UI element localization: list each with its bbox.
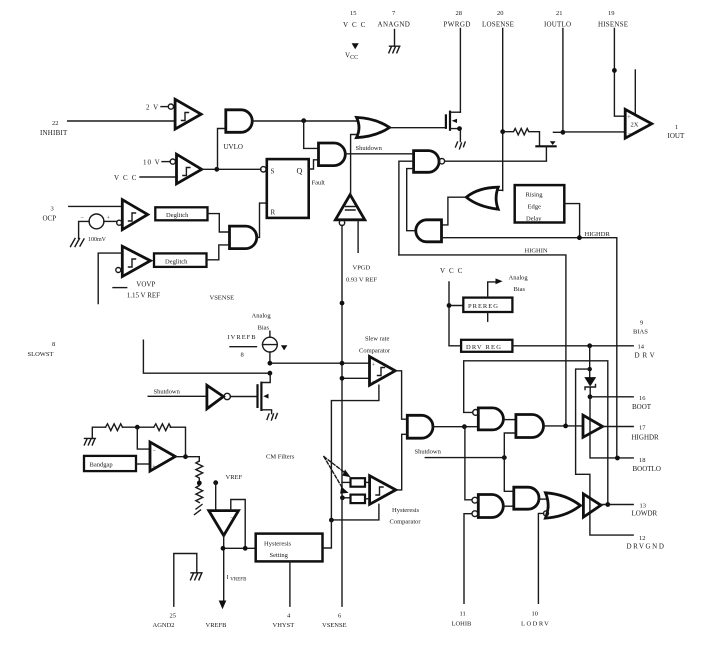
pin 20 LOSENSE label	[482, 10, 514, 29]
svg-text:14: 14	[638, 344, 645, 351]
svg-text:19: 19	[608, 10, 615, 17]
node UVLO junction	[214, 167, 219, 172]
svg-text:1.15 V REF: 1.15 V REF	[127, 292, 160, 300]
wire VCC to comparator	[140, 176, 177, 178]
wire driver1 output to pin 17	[603, 426, 634, 428]
pin 10 LODRV label	[521, 611, 550, 628]
wire VOVP top input	[98, 253, 122, 303]
transistor Q1 (PWRGD MOSFET)	[446, 111, 462, 142]
resistor R4 (divider top)	[196, 461, 203, 481]
svg-text:+: +	[152, 465, 156, 471]
svg-text:15: 15	[350, 10, 357, 17]
pin 1 IOUT label	[668, 124, 685, 140]
svg-text:Edge: Edge	[528, 204, 541, 211]
node buffer output junction	[221, 546, 226, 551]
wire junction up to UVLO AND input	[218, 129, 226, 170]
wire feedback from LOWDR to NAND bubble	[464, 361, 608, 505]
wire VREF to buffer + input	[215, 483, 217, 511]
op-amp U11 (bandgap amp)	[150, 442, 175, 471]
wire DRVGND net	[576, 369, 634, 535]
AND gate (latch R input)	[230, 226, 257, 249]
VOVP label with bar	[113, 281, 155, 289]
wire PWRGD to MOSFET drain	[459, 29, 461, 113]
comparator U10 (hysteresis)	[370, 476, 396, 505]
svg-text:LOWDR: LOWDR	[632, 510, 658, 518]
wire VPGD output up to OR input	[351, 135, 358, 195]
op-amp U7 (2X current amp)	[625, 109, 652, 138]
svg-text:9: 9	[640, 320, 643, 327]
node BOOTLO junction	[615, 456, 620, 461]
wire AGND2 to ground	[174, 554, 197, 607]
svg-text:HIGHDR: HIGHDR	[632, 434, 660, 442]
node driver1 input junction	[563, 424, 568, 429]
pin 6 VSENSE label	[322, 613, 347, 630]
wire NAND input2 from HIGHIN	[399, 161, 414, 255]
svg-text:IVREFB: IVREFB	[228, 334, 257, 341]
node VSENSE upper junction	[340, 301, 345, 306]
Hysteresis Setting block	[256, 534, 323, 562]
NAND gate (high side logic)	[473, 408, 504, 430]
svg-text:INHIBIT: INHIBIT	[40, 129, 68, 137]
PREREG block	[463, 298, 512, 312]
wire LOSENSE vertical	[502, 29, 504, 191]
AND gate (low drive)	[514, 487, 539, 509]
svg-text:VOVP: VOVP	[136, 281, 155, 289]
CM filter box 1	[342, 478, 370, 487]
divider continuation marks	[195, 505, 203, 515]
svg-text:1: 1	[675, 124, 678, 131]
svg-text:UVLO: UVLO	[224, 143, 243, 151]
svg-text:Deglitch: Deglitch	[166, 212, 189, 219]
comparator U1 (INHIBIT 2V)	[168, 99, 201, 129]
svg-text:28: 28	[456, 10, 463, 17]
svg-text:Rising: Rising	[526, 192, 544, 199]
wire HIGHDR net	[442, 238, 617, 459]
svg-text:SLOWST: SLOWST	[28, 351, 54, 358]
pin 4 VHYST label	[273, 613, 295, 630]
wire OR output to PWRGD MOSFET gate	[390, 127, 446, 129]
svg-text:Analog: Analog	[509, 275, 529, 282]
wire junction down to shutdown AND	[304, 121, 319, 148]
wire PREREG to Analog Bias arrow	[488, 282, 496, 298]
node shutdown branch junction	[462, 424, 467, 429]
svg-text:8: 8	[241, 352, 244, 359]
svg-text:+: +	[627, 115, 631, 121]
svg-text:Deglitch: Deglitch	[165, 259, 188, 266]
svg-text:Slew rate: Slew rate	[365, 336, 389, 343]
node hysteresis setting junction	[329, 518, 334, 523]
svg-text:DRV REG: DRV REG	[466, 344, 502, 351]
pin 8 SLOWST label	[28, 341, 56, 358]
svg-text:22: 22	[52, 120, 59, 127]
node shutdown low junction	[502, 455, 507, 460]
comparator U2 (UVLO 10V)	[170, 154, 202, 184]
wire resistor to output	[170, 427, 185, 457]
svg-text:18: 18	[639, 457, 646, 464]
node HIGHDR junction	[577, 235, 582, 240]
comparator U6 (VPGD, pointing up)	[335, 195, 364, 226]
svg-text:VPGD: VPGD	[353, 265, 371, 272]
svg-text:25: 25	[170, 613, 177, 620]
svg-text:11: 11	[460, 611, 466, 618]
Hysteresis Comparator labels	[390, 507, 422, 526]
svg-text:17: 17	[639, 425, 646, 432]
CM filter callout arrows	[324, 457, 351, 494]
ground (100mV source)	[71, 239, 85, 247]
transistor Q2 (current source)	[535, 132, 563, 160]
svg-text:BIAS: BIAS	[633, 329, 648, 336]
svg-text:VCC: VCC	[114, 174, 140, 182]
svg-text:Shutdown: Shutdown	[415, 449, 442, 456]
svg-text:100mV: 100mV	[88, 237, 107, 243]
svg-text:Delay: Delay	[526, 216, 542, 223]
svg-text:Analog: Analog	[252, 313, 272, 320]
svg-text:BOOTLO: BOOTLO	[633, 465, 661, 473]
wire slew bottom terminal	[331, 385, 379, 520]
wire Deglitch2 output to R AND	[207, 245, 230, 260]
svg-text:Fault: Fault	[312, 180, 326, 187]
svg-text:21: 21	[556, 10, 563, 17]
wire IVREFB to comparator input row	[270, 362, 370, 364]
svg-text:R: R	[271, 209, 276, 217]
node feedback junction	[135, 425, 140, 430]
AND gate UVLO	[226, 110, 252, 133]
pin 13 LOWDR label	[632, 503, 658, 518]
wire hysteresis comp bottom terminal	[331, 504, 379, 520]
node IOUTLO junction	[561, 130, 566, 135]
svg-text:PWRGD: PWRGD	[444, 21, 471, 29]
svg-text:DRV: DRV	[635, 352, 658, 360]
wire DRV down to diode	[589, 346, 591, 377]
AND gate (shutdown)	[319, 143, 346, 166]
wire OCP to comparator	[69, 205, 123, 207]
node VREF junction	[213, 480, 218, 485]
wire IOUTLO vertical	[562, 29, 564, 133]
svg-text:Comparator: Comparator	[359, 348, 391, 355]
svg-text:Bias: Bias	[258, 325, 270, 332]
pin 19 HISENSE label	[598, 10, 628, 29]
VCC supply arrow symbol	[345, 43, 359, 61]
wire NAND3 output to AND3	[503, 505, 514, 507]
wire 10V to bubble	[162, 161, 170, 163]
Deglitch box 1	[155, 207, 207, 220]
wire feedback to op-amp - input	[137, 427, 150, 449]
wire hysteresis setting to junction	[323, 520, 332, 548]
pin 7 ANAGND label	[378, 10, 411, 29]
svg-text:AGND2: AGND2	[153, 622, 175, 629]
comparator U9 (slew rate)	[370, 357, 396, 386]
svg-text:VREFB: VREFB	[206, 622, 228, 629]
wire shutdown AND output to NAND	[345, 153, 413, 155]
svg-text:8: 8	[52, 341, 55, 348]
Slew rate Comparator labels	[359, 336, 391, 355]
Analog Bias label (IVREFB)	[252, 313, 272, 332]
AND gate (high side, mirrored)	[416, 220, 442, 242]
svg-text:VHYST: VHYST	[273, 622, 295, 629]
svg-text:Shutdown: Shutdown	[154, 389, 181, 396]
wire DRV REG output to pin 14	[512, 345, 633, 347]
Rising Edge Delay block	[515, 185, 565, 222]
wire bandgap to op-amp + input	[136, 463, 150, 465]
wire VCC to PREREG and DRV REG	[449, 282, 463, 346]
svg-text:VREF: VREF	[226, 474, 243, 481]
node HISENSE junction	[612, 68, 617, 73]
node UVLO output junction	[301, 118, 306, 123]
svg-text:LOHIB: LOHIB	[452, 621, 473, 628]
svg-text:VSENSE: VSENSE	[210, 295, 235, 302]
diode D1 (bootstrap)	[584, 377, 596, 397]
wire BOOT to pin 16	[590, 396, 633, 398]
svg-text:13: 13	[640, 503, 647, 510]
node IVREFB junction	[268, 361, 273, 366]
wire VSENSE pin vertical	[341, 498, 343, 606]
wire NAND output to AND2	[503, 419, 516, 421]
wire branch down to NAND bubble input	[465, 427, 472, 500]
OR gate (shutdown OR)	[357, 117, 390, 137]
pin 14 DRV label	[635, 344, 658, 360]
pin 15 VCC label	[343, 10, 369, 29]
svg-text:20: 20	[497, 10, 504, 17]
svg-text:IOUTLO: IOUTLO	[544, 21, 571, 29]
comparator U3 (OCP)	[117, 200, 148, 230]
wire 2V to bubble	[161, 106, 168, 108]
wire inverter to MOSFET gate	[230, 396, 256, 398]
svg-text:3: 3	[51, 206, 54, 213]
wire LODRV to OR2 bubble	[538, 513, 543, 603]
svg-text:Shutdown: Shutdown	[356, 145, 383, 152]
wire AND3 output to OR2	[539, 498, 548, 500]
wire LOHIB to NAND bubble	[464, 514, 472, 604]
node BOOT junction	[588, 394, 593, 399]
NAND gate (gate drive enable)	[414, 151, 445, 173]
VREFB pin arrow	[219, 601, 227, 610]
svg-text:12: 12	[639, 535, 646, 542]
svg-text:CM Filters: CM Filters	[266, 454, 295, 461]
NAND gate (low side, two bubbles)	[472, 495, 503, 518]
resistor R3	[154, 424, 171, 431]
resistor R1	[503, 129, 540, 147]
pin 16 BOOT label	[632, 395, 652, 411]
wire HIGHIN net	[399, 255, 566, 426]
latch U5 (SR)	[261, 159, 309, 218]
node slew + input junction	[340, 361, 345, 366]
wire U2 output to latch S	[202, 168, 261, 170]
svg-text:Setting: Setting	[270, 552, 289, 559]
wire buffer feedback	[231, 500, 245, 549]
wire to feedback node	[123, 426, 154, 428]
svg-text:HIGHDR: HIGHDR	[585, 231, 611, 238]
wire PREREG bottom stub	[487, 312, 489, 321]
svg-text:10: 10	[532, 611, 539, 618]
svg-text:Hysteresis: Hysteresis	[264, 541, 292, 548]
svg-text:2 V: 2 V	[146, 104, 159, 112]
transistor Q3 (slowstart discharge)	[258, 373, 272, 413]
offset source 100mV	[79, 214, 117, 243]
bandgap ground	[84, 438, 95, 445]
svg-text:DRVGND: DRVGND	[627, 543, 666, 551]
wire SLOWST	[143, 340, 270, 373]
wire AND2 output to driver1	[544, 425, 584, 427]
svg-text:LOSENSE: LOSENSE	[482, 21, 514, 29]
wire ANAGND to ground	[394, 30, 396, 46]
svg-text:VCC: VCC	[343, 21, 369, 29]
svg-text:HIGHIN: HIGHIN	[525, 248, 548, 255]
comparator U4 (VOVP)	[116, 246, 151, 276]
node CM filter junction	[340, 495, 345, 500]
buffer U12 (VREF buffer, pointing down)	[209, 511, 239, 536]
current source IVREFB/8	[228, 331, 288, 363]
wire slewrate comparator inputs column	[341, 226, 343, 498]
wire latch Q to shutdown AND	[309, 160, 319, 169]
Bandgap block	[84, 456, 136, 471]
node LOSENSE junction	[500, 129, 505, 134]
svg-text:LODRV: LODRV	[521, 621, 550, 628]
wire shutdown to inverter	[148, 395, 207, 397]
svg-text:Bandgap: Bandgap	[90, 462, 113, 469]
svg-text:Q: Q	[297, 167, 303, 176]
pin 11 LOHIB label	[452, 611, 473, 628]
wire driver2 output to pin 13	[601, 504, 633, 506]
node LOWDR junction	[605, 502, 610, 507]
svg-text:ANAGND: ANAGND	[378, 21, 411, 29]
wire mirrored OR output to AND	[442, 197, 467, 225]
wire Deglitch1 output to R AND	[208, 214, 230, 232]
CM filter box 2	[342, 495, 370, 504]
node DRV junction	[587, 343, 592, 348]
node op-amp output junction	[183, 454, 188, 459]
wire AND output to NAND input	[433, 426, 478, 428]
svg-text:0.93 V REF: 0.93 V REF	[346, 277, 377, 284]
pin 28 PWRGD label	[444, 10, 471, 29]
ground (ANAGND)	[389, 46, 400, 53]
AND gate (low row, first)	[407, 415, 433, 438]
OR gate (low drive)	[544, 493, 581, 518]
svg-text:+: +	[372, 363, 376, 369]
node divider junction	[197, 481, 202, 486]
wire amp second input stub	[634, 70, 636, 115]
pin 12 DRVGND label	[627, 535, 666, 551]
svg-text:Hysteresis: Hysteresis	[392, 507, 420, 514]
node slew - input junction	[340, 376, 345, 381]
wire INHIBIT to comparator	[68, 120, 175, 122]
AND gate (high drive)	[516, 415, 544, 438]
svg-text:16: 16	[639, 395, 646, 402]
driver U14 (low side)	[583, 494, 601, 517]
ground (AGND2)	[191, 573, 203, 580]
svg-text:Bias: Bias	[514, 286, 526, 293]
wire BOOT down to BOOTLO	[590, 397, 633, 458]
node VCC PREREG junction	[447, 303, 452, 308]
wire slew output to AND row	[395, 371, 407, 419]
pin 21 IOUTLO label	[544, 10, 571, 29]
wire buffer output row	[223, 536, 256, 601]
svg-text:BOOT: BOOT	[632, 403, 652, 411]
pin 18 BOOTLO label	[633, 457, 661, 473]
wire R AND output to latch R	[257, 203, 267, 237]
ground (PWRGD source)	[456, 142, 466, 149]
wire ground to resistor row	[92, 427, 105, 438]
Analog Bias label (PREREG)	[509, 275, 529, 294]
wire Rising Edge Delay output to HIGHDR	[564, 204, 579, 238]
svg-text:10 V: 10 V	[143, 159, 161, 167]
inverter U8	[207, 385, 231, 409]
svg-text:2X: 2X	[631, 122, 639, 129]
wire slew - input row	[342, 377, 370, 379]
resistor R2	[106, 424, 123, 431]
pin 22 INHIBIT label	[40, 120, 68, 137]
wire op-amp output	[175, 457, 199, 461]
wire HISENSE vertical to amp + input	[614, 29, 625, 117]
node SLOWST junction	[268, 371, 273, 376]
svg-text:VSENSE: VSENSE	[322, 622, 347, 629]
svg-text:OCP: OCP	[43, 215, 57, 223]
svg-text:HISENSE: HISENSE	[598, 21, 628, 29]
wire NAND input3 from AND output	[407, 169, 414, 231]
wire VHYST from box bottom	[289, 561, 291, 606]
svg-text:S: S	[271, 168, 275, 176]
wire UVLO AND output to OR	[252, 120, 358, 122]
pin 9 BIAS label	[633, 320, 648, 336]
svg-text:Comparator: Comparator	[390, 519, 422, 526]
wire VPGD right input stub	[357, 220, 359, 253]
pin 17 HIGHDR label	[632, 425, 660, 442]
wire NAND output to current source	[445, 160, 547, 162]
wire shutdown low net	[425, 457, 504, 459]
DRV REG block	[461, 340, 512, 352]
ground (Q3 source)	[267, 414, 277, 421]
OR gate (LOSENSE, mirrored)	[466, 187, 502, 209]
svg-text:PREREG: PREREG	[468, 303, 499, 310]
Deglitch box 2	[154, 253, 207, 267]
wire shutdown up to AND2 input	[504, 433, 516, 458]
node feedback junction	[243, 546, 248, 551]
resistor R5 (divider bottom)	[196, 486, 203, 503]
pin 25 AGND2 label	[153, 613, 177, 630]
wire hysteresis comp output to AND input2	[396, 434, 408, 490]
wire IOUTLO to 2X amp	[563, 131, 625, 133]
pin 3 OCP label	[43, 206, 57, 223]
driver U13 (high side)	[583, 415, 603, 437]
wire shutdown down to AND3 input	[504, 458, 514, 492]
node DRVGND branch junction	[588, 367, 592, 371]
svg-text:VCC: VCC	[440, 267, 466, 275]
svg-text:IOUT: IOUT	[668, 132, 685, 140]
